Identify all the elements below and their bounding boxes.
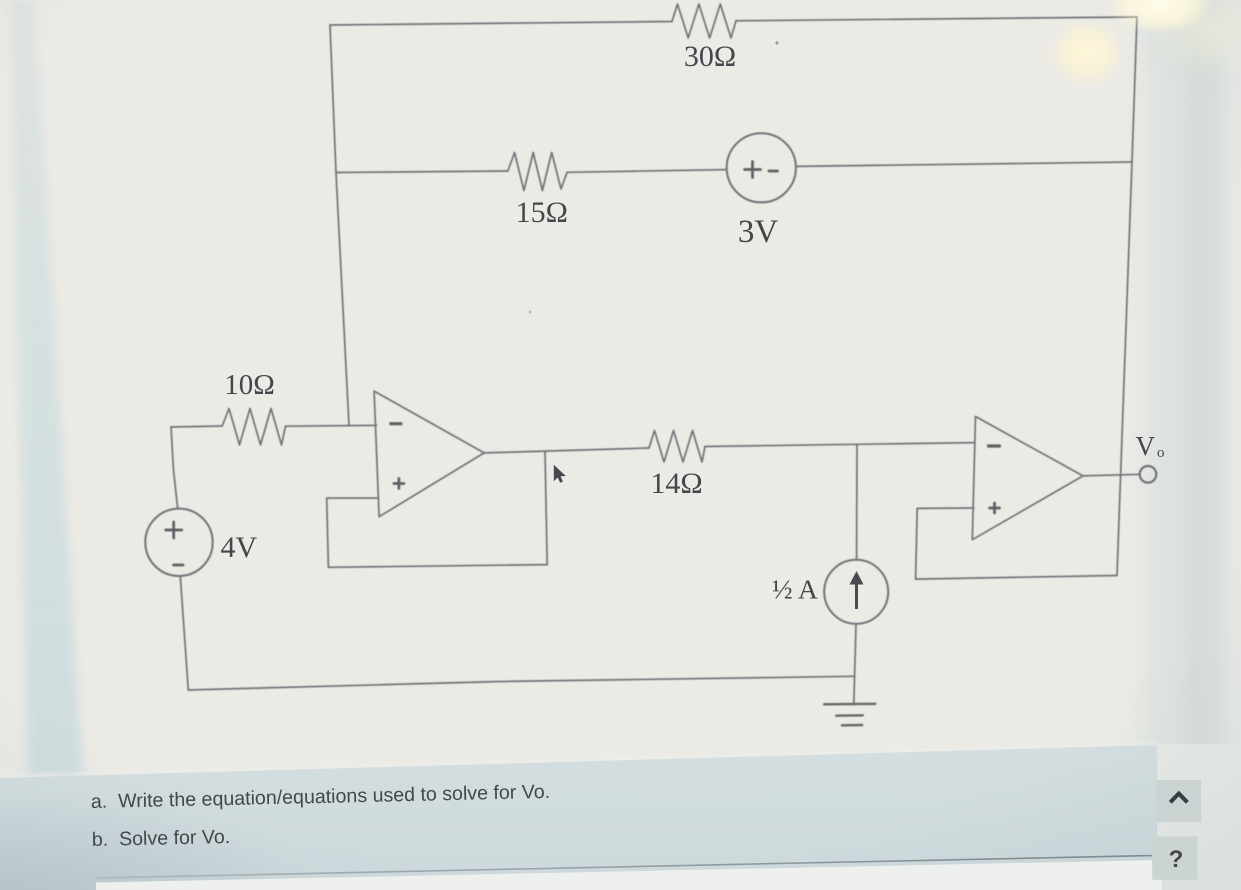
U2 non-inverting input mark [990, 507, 1000, 510]
glare blob top [1103, 0, 1215, 34]
wire R4 to U2 inverting input [705, 443, 975, 447]
wire V1 to bottom rail [180, 577, 188, 691]
divider line [97, 856, 1155, 879]
V2 plus mark [745, 168, 761, 171]
svg-text:b. Solve for Vo.: b. Solve for Vo. [92, 826, 231, 851]
svg-text:4V: 4V [221, 531, 258, 564]
op-amp U2 [972, 417, 1083, 540]
voltage source V1 4V [145, 509, 212, 576]
voltage source V2 3V [727, 133, 796, 202]
collapse button [1156, 780, 1201, 822]
V1 plus mark [166, 529, 182, 532]
glare blob mid [1047, 17, 1127, 89]
left blue strip [10, 0, 83, 777]
wire U1 feedback to non-inverting input [327, 452, 548, 567]
wire node to current source I1 [856, 444, 858, 560]
right cool band [1128, 0, 1241, 760]
svg-text:15Ω: 15Ω [516, 196, 568, 229]
wire R3 to U1 inverting input [286, 424, 377, 427]
svg-text:½ A: ½ A [772, 574, 818, 605]
wire U2 feedback to non-inverting input [916, 508, 1117, 579]
wire U1 output segment [484, 448, 649, 453]
wire top rail right segment [736, 17, 1137, 21]
bottom right lighter area [1157, 744, 1241, 890]
wire input node to R3 [171, 426, 222, 427]
svg-text:o: o [1157, 445, 1165, 461]
current source I1 half amp [824, 560, 888, 624]
current source I1 arrow [850, 571, 864, 609]
wire U2 output [1083, 474, 1140, 476]
resistor R1 30ohm [672, 4, 736, 38]
resistor R2 15ohm [508, 153, 567, 191]
wire node to V1 [171, 427, 178, 509]
V2 minus mark [769, 170, 778, 173]
op-amp U1 [374, 391, 484, 517]
bottom-left vignette [0, 790, 320, 890]
svg-text:10Ω: 10Ω [224, 369, 275, 401]
ground [823, 704, 876, 726]
wire left vertical [330, 25, 349, 426]
wire top rail left segment [330, 22, 672, 26]
resistor R4 14ohm [649, 431, 705, 463]
U1 inverting input mark [391, 422, 401, 425]
resistor R3 10ohm [222, 409, 285, 445]
wire R2 to V2 [567, 170, 727, 173]
wire middle rail left segment [336, 171, 508, 173]
svg-text:3V: 3V [738, 214, 779, 250]
svg-text:?: ? [1169, 846, 1184, 873]
paper speck [775, 41, 778, 44]
svg-text:14Ω: 14Ω [650, 467, 702, 500]
U1 non-inverting input mark [394, 482, 404, 485]
V1 minus mark [174, 564, 184, 567]
wire V2 to right vertical [796, 162, 1132, 166]
U2 inverting input mark [989, 444, 1000, 447]
plus minus marks [166, 162, 1000, 566]
bottom band highlight edge [0, 744, 1157, 777]
terminal Vo [1140, 466, 1157, 483]
svg-text:V: V [1136, 431, 1156, 461]
wire right vertical [1117, 17, 1137, 576]
svg-text:30Ω: 30Ω [684, 40, 736, 73]
wire I1 to ground node [854, 624, 856, 704]
help button [1152, 836, 1197, 879]
bottom blue band [0, 745, 1157, 890]
answer panel [96, 860, 1162, 890]
paper speck [529, 311, 532, 314]
glare overlay on circuit [1051, 21, 1123, 85]
mouse cursor [554, 465, 566, 483]
wire bottom rail [188, 676, 854, 690]
